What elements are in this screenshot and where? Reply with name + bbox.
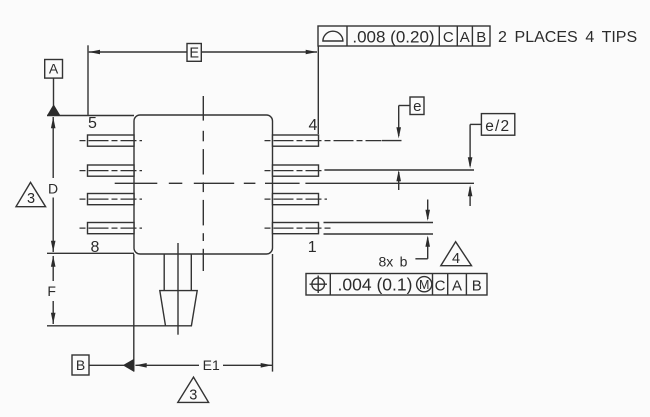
svg-text:A: A [452, 278, 462, 295]
svg-text:.004 (0.1): .004 (0.1) [338, 275, 413, 295]
svg-text:3: 3 [27, 191, 35, 207]
svg-text:F: F [47, 283, 56, 299]
svg-text:B: B [476, 29, 486, 46]
svg-text:A: A [49, 61, 59, 77]
svg-text:e/2: e/2 [485, 118, 510, 135]
svg-text:A: A [460, 29, 470, 46]
svg-text:M: M [419, 278, 429, 292]
svg-text:D: D [48, 181, 58, 197]
svg-text:4: 4 [452, 251, 460, 267]
svg-text:C: C [443, 29, 454, 46]
svg-text:E: E [189, 46, 199, 62]
svg-text:2 PLACES 4 TIPS: 2 PLACES 4 TIPS [498, 29, 637, 46]
svg-text:E1: E1 [203, 357, 220, 373]
svg-text:3: 3 [189, 388, 197, 404]
svg-text:8: 8 [91, 239, 100, 256]
svg-text:4: 4 [309, 117, 318, 134]
svg-text:B: B [76, 357, 85, 373]
svg-text:C: C [435, 278, 446, 295]
svg-text:1: 1 [308, 239, 317, 256]
svg-text:e: e [413, 98, 421, 115]
svg-text:.008 (0.20): .008 (0.20) [352, 28, 434, 47]
svg-text:5: 5 [88, 115, 97, 132]
svg-text:B: B [472, 278, 482, 295]
svg-text:8x b: 8x b [379, 254, 408, 270]
